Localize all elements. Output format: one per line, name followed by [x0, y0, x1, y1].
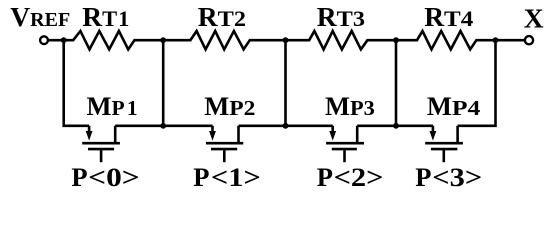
svg-text:P<3>: P<3> [415, 162, 482, 192]
svg-text:P<0>: P<0> [71, 162, 139, 192]
svg-text:RT1: RT1 [82, 1, 130, 32]
svg-text:X: X [524, 3, 544, 34]
svg-text:MP4: MP4 [427, 91, 481, 121]
svg-text:RT4: RT4 [424, 1, 473, 32]
svg-text:RT2: RT2 [198, 1, 246, 32]
svg-text:MP1: MP1 [87, 91, 140, 121]
svg-text:P<2>: P<2> [317, 162, 384, 192]
svg-text:MP2: MP2 [204, 91, 255, 121]
svg-text:MP3: MP3 [325, 91, 375, 121]
svg-text:RT3: RT3 [317, 1, 365, 32]
svg-text:P<1>: P<1> [193, 162, 260, 192]
